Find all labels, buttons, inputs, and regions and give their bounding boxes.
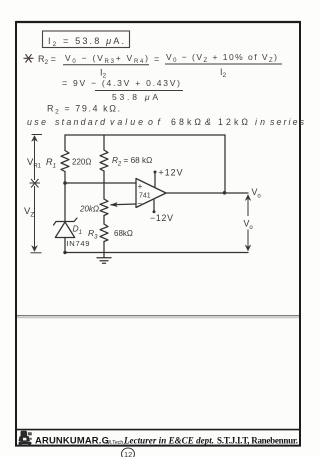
wire top rail	[65, 134, 225, 136]
node zener/R1 junction	[63, 181, 67, 185]
op-amp U1 741	[136, 179, 166, 208]
right dimension line Vo	[245, 195, 251, 252]
ground	[97, 257, 111, 259]
svg-text:in: in	[255, 117, 265, 127]
wire output horizontal	[166, 192, 248, 194]
wire left branch upper	[64, 135, 66, 151]
svg-text:12: 12	[124, 450, 132, 457]
wire -12V supply	[153, 200, 155, 212]
svg-text:9V − (4.3V + 0.43V): 9V − (4.3V + 0.43V)	[73, 78, 180, 88]
svg-text:Lecturer in E&CE dept.: Lecturer in E&CE dept.	[123, 436, 214, 446]
wire R3 to bottom rail	[103, 242, 105, 258]
svg-text:20kΩ: 20kΩ	[79, 205, 99, 214]
zener diode D1	[54, 218, 78, 225]
potentiometer 20k	[100, 199, 108, 216]
svg-text:IN749: IN749	[67, 239, 90, 248]
logo emblem	[19, 431, 32, 447]
svg-text:12kΩ: 12kΩ	[218, 117, 248, 127]
resistor R2	[100, 150, 108, 171]
resistor R3	[100, 224, 108, 242]
star junction mark	[30, 182, 41, 184]
wire +12V supply	[154, 173, 156, 188]
footer divider line	[17, 429, 299, 431]
svg-text:68kΩ: 68kΩ	[114, 229, 133, 238]
svg-text:S.T.J.I.T, Ranebennur.: S.T.J.I.T, Ranebennur.	[217, 436, 298, 446]
footer text	[35, 435, 298, 446]
node zener bottom	[63, 251, 66, 254]
svg-text:−: −	[137, 198, 142, 208]
resistor R1	[61, 151, 69, 172]
wire left branch middle	[64, 172, 66, 221]
page number circle	[122, 448, 135, 457]
svg-text:&: &	[205, 117, 211, 127]
wire right vertical from rail to output node	[224, 135, 226, 193]
svg-text:=: =	[154, 54, 159, 64]
wire node to + input	[65, 182, 136, 184]
svg-text:53.8 μA: 53.8 μA	[112, 92, 158, 102]
svg-text:68kΩ: 68kΩ	[171, 117, 201, 127]
asterisk mark	[24, 54, 34, 62]
wire middle branch upper	[103, 135, 105, 150]
wire zener anode to bottom rail	[64, 238, 66, 253]
circuit labels	[24, 156, 261, 248]
wire pot to R3	[103, 216, 105, 225]
wire middle branch	[103, 171, 105, 199]
svg-text:+12V: +12V	[159, 168, 183, 178]
svg-text:use: use	[27, 117, 46, 127]
boxed result I2 = 53.8 uA	[43, 31, 130, 48]
svg-text:+: +	[138, 181, 143, 191]
svg-text:M.Tech,: M.Tech,	[107, 440, 125, 446]
svg-text:=: =	[62, 78, 67, 88]
svg-text:−12V: −12V	[150, 213, 173, 223]
left dimension line VR1 / VZ	[30, 135, 43, 253]
middle double rule	[17, 315, 299, 317]
svg-text:ARUNKUMAR.G: ARUNKUMAR.G	[35, 435, 109, 446]
wire bottom rail	[64, 252, 248, 254]
node output junction	[223, 191, 227, 195]
svg-text:220Ω: 220Ω	[72, 158, 91, 167]
wire - input to pot wiper arrow	[111, 203, 136, 206]
